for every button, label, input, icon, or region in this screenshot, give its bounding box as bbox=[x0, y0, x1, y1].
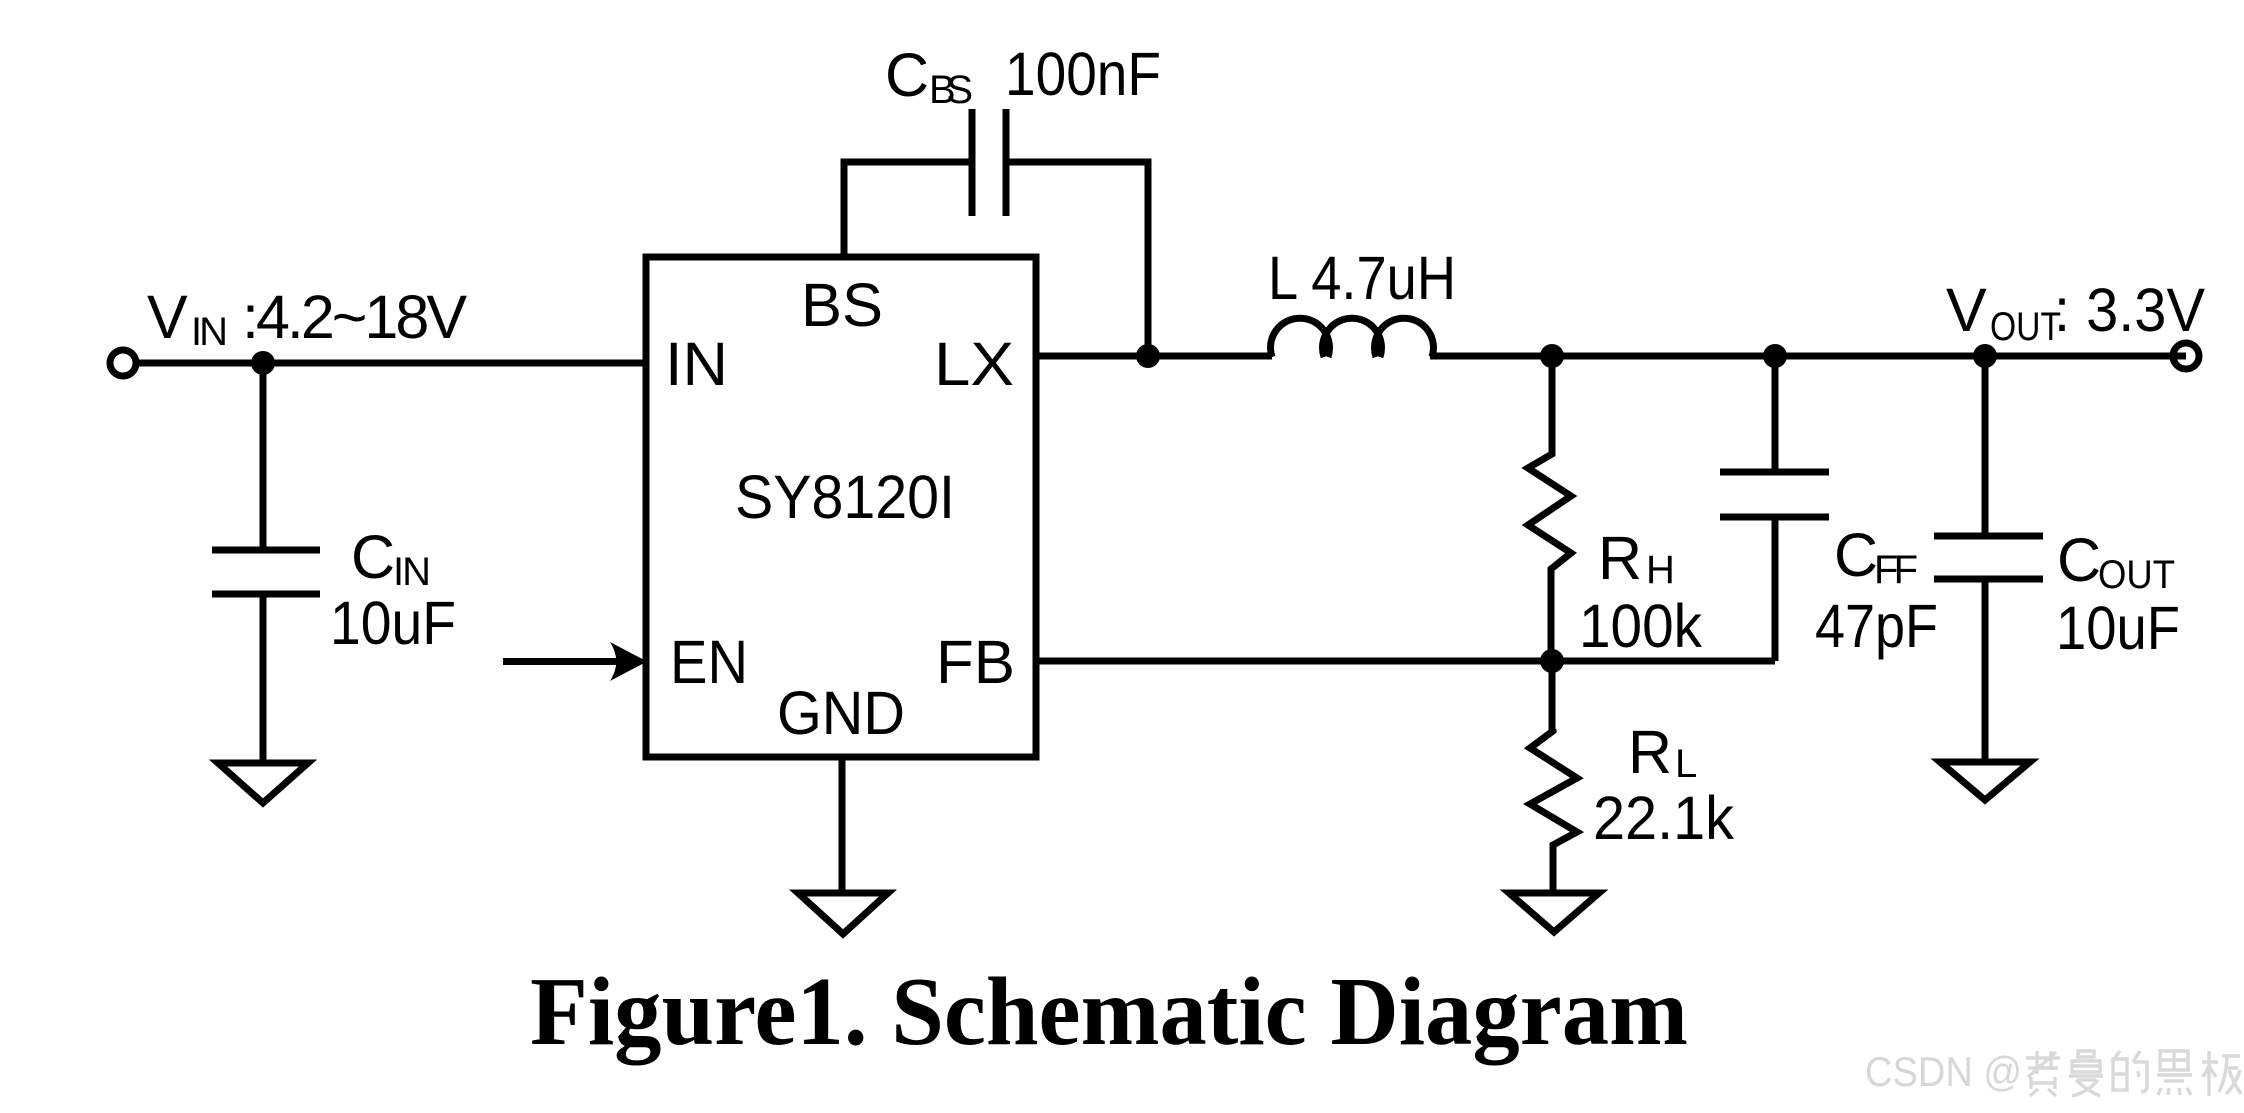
svg-text:100k: 100k bbox=[1579, 592, 1702, 660]
svg-text:SY8120I: SY8120I bbox=[735, 463, 955, 531]
wire RH top stem bbox=[1549, 356, 1556, 454]
node COUT junction bbox=[1973, 344, 1997, 368]
watermark CSDN @feiman-blackboard bbox=[1865, 1048, 2241, 1096]
wire output rail bbox=[1430, 353, 2186, 360]
svg-text:100nF: 100nF bbox=[1005, 40, 1161, 108]
node VIN junction bbox=[251, 351, 275, 375]
svg-text:GND: GND bbox=[777, 679, 905, 747]
capacitor C_BS plates bbox=[972, 109, 1006, 216]
hanzi hei bbox=[2157, 1051, 2192, 1095]
svg-text:47pF: 47pF bbox=[1815, 592, 1938, 660]
wire FB net bbox=[1036, 658, 1775, 665]
svg-text:L: L bbox=[1675, 742, 1697, 786]
wire LX pin to inductor bbox=[1036, 353, 1272, 360]
label VIN :4.2~18V bbox=[147, 283, 467, 354]
svg-text:OUT: OUT bbox=[1990, 305, 2061, 349]
svg-text::4.2~18V: :4.2~18V bbox=[242, 283, 467, 351]
svg-text:BS: BS bbox=[929, 68, 973, 112]
svg-text:L 4.7uH: L 4.7uH bbox=[1268, 244, 1456, 312]
node LX junction bbox=[1136, 344, 1160, 368]
resistor RL zigzag bbox=[1530, 729, 1577, 847]
ground (RL) bbox=[1509, 893, 1599, 932]
ground (CIN) bbox=[218, 763, 308, 803]
svg-text:OUT: OUT bbox=[2098, 553, 2175, 597]
svg-text:EN: EN bbox=[670, 628, 748, 696]
svg-text:FF: FF bbox=[1874, 548, 1918, 592]
wire RL top stem bbox=[1549, 661, 1556, 731]
label CFF bbox=[1834, 521, 1918, 592]
label VOUT: 3.3V bbox=[1946, 276, 2205, 349]
ground (COUT) bbox=[1940, 762, 2030, 800]
svg-text:IN: IN bbox=[665, 330, 728, 398]
svg-text:10uF: 10uF bbox=[330, 589, 456, 657]
svg-text:C: C bbox=[1834, 521, 1878, 589]
label CBS bbox=[885, 41, 973, 112]
wire COUT bottom stem bbox=[1982, 579, 1989, 763]
wire CFF top stem bbox=[1772, 356, 1779, 472]
hanzi fei bbox=[2026, 1051, 2060, 1096]
hanzi ban bbox=[2202, 1051, 2241, 1096]
svg-text:R: R bbox=[1628, 718, 1672, 786]
wire VIN input rail bbox=[137, 360, 646, 367]
svg-text:CSDN @: CSDN @ bbox=[1865, 1048, 2022, 1095]
node FB junction bbox=[1540, 649, 1564, 673]
wire GND pin stem bbox=[839, 757, 846, 894]
IC U1 SY8120I box bbox=[646, 257, 1036, 757]
wire CBS right to LX node bbox=[1009, 162, 1148, 356]
svg-text:Figure1. Schematic Diagram: Figure1. Schematic Diagram bbox=[530, 958, 1688, 1065]
svg-text:10uF: 10uF bbox=[2056, 594, 2180, 662]
svg-text:H: H bbox=[1646, 548, 1675, 592]
node RH junction bbox=[1540, 344, 1564, 368]
svg-text:BS: BS bbox=[801, 271, 883, 339]
output terminal (VOUT) open circle bbox=[2173, 343, 2199, 369]
label CIN bbox=[351, 523, 431, 594]
svg-text:IN: IN bbox=[191, 310, 228, 354]
node CFF junction bbox=[1763, 344, 1787, 368]
svg-text:R: R bbox=[1598, 524, 1642, 592]
svg-text:V: V bbox=[147, 283, 188, 351]
ground (IC GND) bbox=[798, 893, 888, 934]
resistor RH zigzag bbox=[1528, 452, 1571, 572]
wire CIN top stem bbox=[260, 363, 267, 550]
label RL bbox=[1628, 718, 1697, 786]
svg-text:C: C bbox=[2057, 526, 2101, 594]
hanzi de bbox=[2113, 1051, 2147, 1092]
svg-text:22.1k: 22.1k bbox=[1593, 784, 1734, 852]
svg-text:LX: LX bbox=[934, 330, 1014, 398]
label COUT bbox=[2057, 526, 2175, 597]
wire CFF bottom stem bbox=[1772, 517, 1779, 661]
label RH bbox=[1598, 524, 1675, 592]
wire RL bottom stem bbox=[1550, 845, 1557, 894]
capacitor C_FF plates bbox=[1720, 472, 1829, 517]
wire COUT top stem bbox=[1982, 356, 1989, 536]
svg-text:: 3.3V: : 3.3V bbox=[2054, 276, 2205, 344]
hanzi man bbox=[2069, 1051, 2103, 1096]
input terminal (VIN) open circle bbox=[110, 350, 136, 376]
wire CIN bottom stem bbox=[260, 594, 267, 764]
inductor L 4.7uH bbox=[1271, 318, 1434, 357]
arrow EN input bbox=[503, 642, 647, 681]
capacitor C_IN plates bbox=[212, 550, 320, 594]
svg-text:FB: FB bbox=[936, 628, 1015, 696]
wire RH bottom stem bbox=[1548, 569, 1555, 661]
svg-text:IN: IN bbox=[393, 550, 431, 594]
capacitor C_OUT plates bbox=[1934, 536, 2043, 579]
svg-text:V: V bbox=[1946, 276, 1987, 344]
svg-text:C: C bbox=[885, 41, 929, 109]
svg-text:C: C bbox=[351, 523, 395, 591]
wire BS pin up to CBS left bbox=[844, 162, 969, 257]
